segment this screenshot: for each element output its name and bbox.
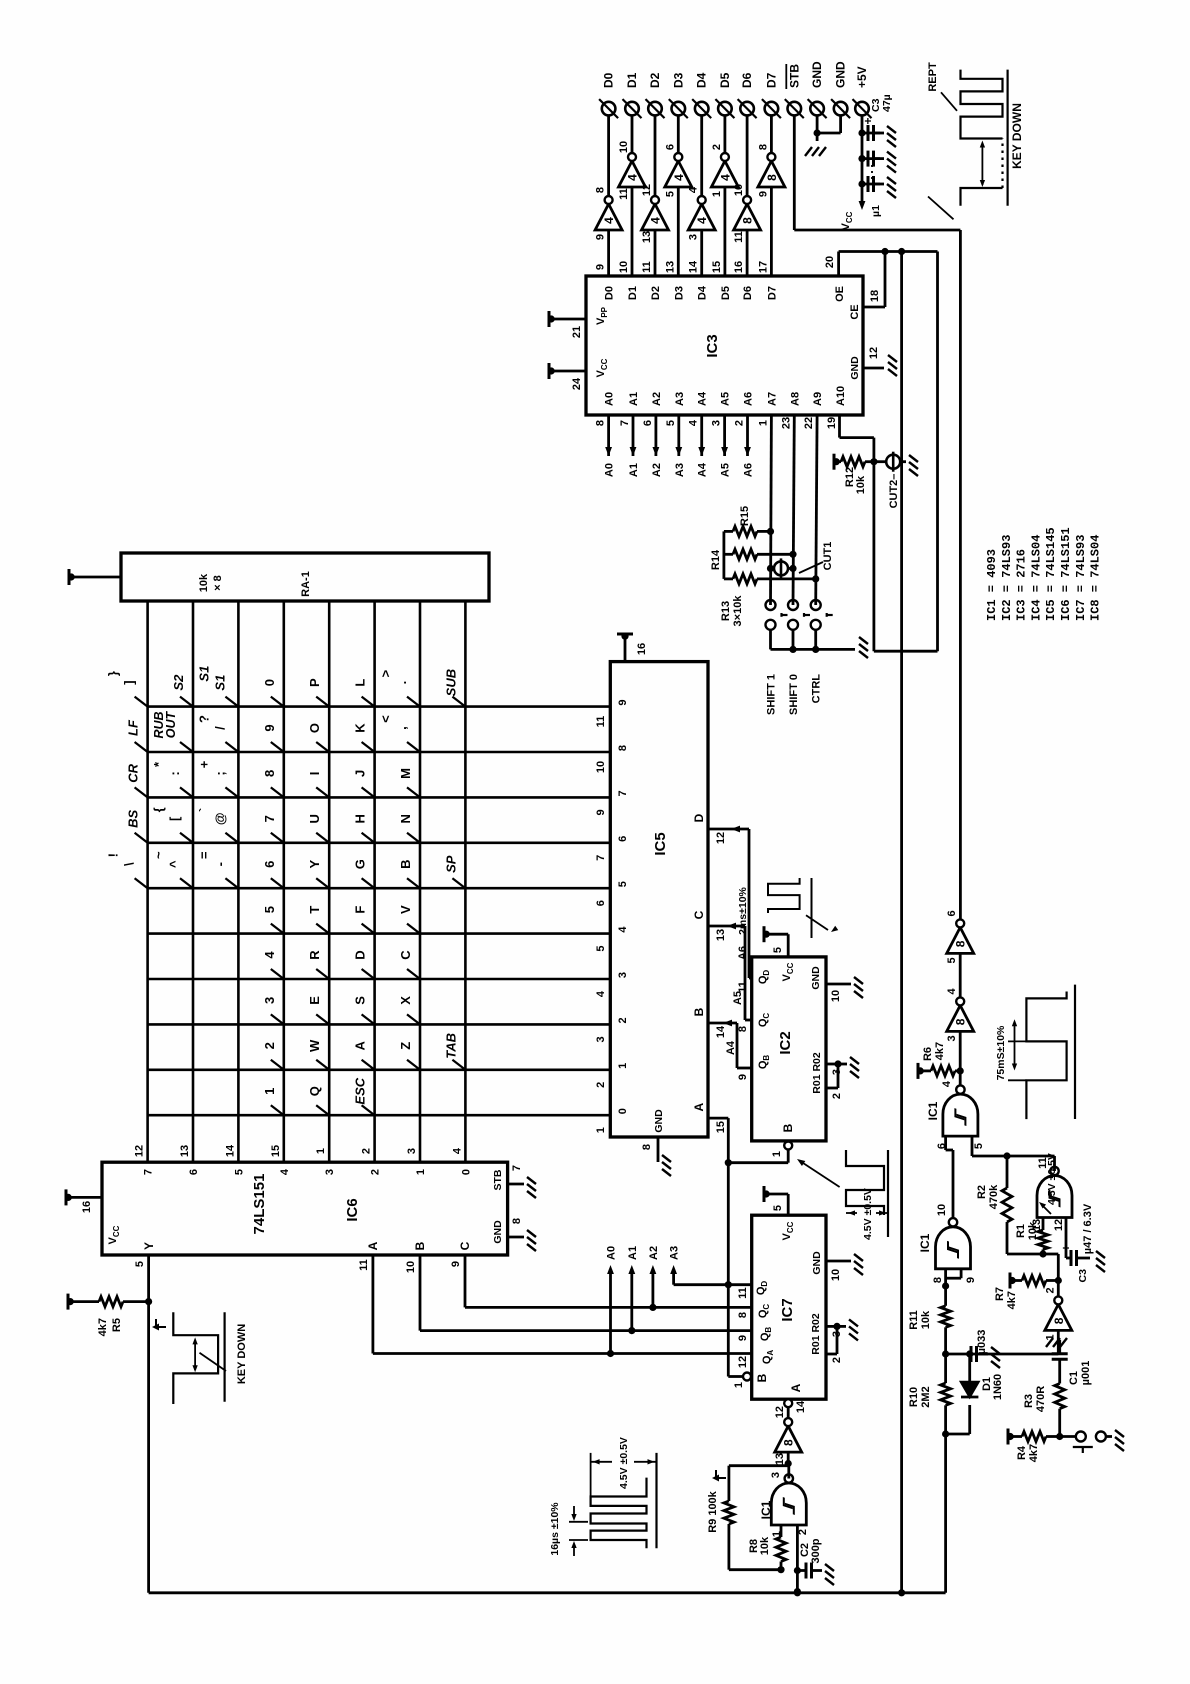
IC3 ground — [884, 354, 897, 376]
key switch col5 row f — [362, 878, 375, 888]
svg-text:2: 2 — [370, 1169, 382, 1175]
svg-text:10k: 10k — [920, 1310, 932, 1329]
R11 10k — [941, 1306, 951, 1328]
svg-text:4.5V ±0.5V: 4.5V ±0.5V — [862, 1188, 874, 1240]
svg-text:STB: STB — [492, 1169, 504, 1190]
svg-text:2: 2 — [617, 1017, 629, 1023]
key switch col5 row b — [180, 878, 193, 888]
key switch col2 row a — [135, 742, 148, 752]
svg-text:R10: R10 — [908, 1387, 920, 1407]
CUT2 symbol — [886, 452, 900, 472]
matrix column wire — [148, 751, 611, 754]
svg-text:µ1: µ1 — [870, 205, 882, 217]
svg-text:15: 15 — [270, 1145, 282, 1157]
trace — [961, 70, 1003, 139]
svg-text:A3: A3 — [674, 463, 686, 477]
svg-text:4k7: 4k7 — [934, 1042, 946, 1060]
matrix column wire — [148, 841, 611, 844]
svg-text:2: 2 — [831, 1093, 843, 1099]
svg-text:IC2 = 74LS93: IC2 = 74LS93 — [1000, 535, 1014, 621]
axis — [655, 1453, 657, 1548]
svg-text:U: U — [307, 814, 322, 823]
A8 row — [793, 415, 794, 605]
svg-text:GND: GND — [653, 1109, 665, 1133]
svg-text:A1: A1 — [627, 1246, 639, 1260]
key switch col4 row d — [271, 833, 284, 843]
svg-text:A5: A5 — [720, 463, 732, 477]
svg-text:14: 14 — [224, 1144, 236, 1157]
R8 10k — [780, 1525, 783, 1537]
svg-text:+5V: +5V — [855, 66, 869, 88]
svg-text:8: 8 — [954, 1018, 968, 1025]
CUT1 link — [767, 565, 774, 572]
IC2 reset ground — [846, 1056, 859, 1078]
svg-text:R15: R15 — [739, 506, 751, 526]
svg-text:A1: A1 — [628, 392, 640, 406]
GND connector wiring — [816, 115, 819, 133]
svg-text:.: . — [394, 681, 409, 685]
svg-text:R: R — [307, 950, 322, 960]
svg-text:-: - — [212, 862, 227, 866]
svg-text:R13: R13 — [720, 601, 732, 621]
+5V wire — [861, 115, 864, 206]
svg-text:GND: GND — [834, 61, 848, 88]
u47 plates — [1071, 1250, 1077, 1266]
svg-text:S: S — [353, 996, 368, 1005]
svg-text:?: ? — [196, 715, 211, 723]
svg-text:4.5V ±0.5V: 4.5V ±0.5V — [1046, 1153, 1058, 1205]
key switch col10 row f — [362, 1105, 375, 1115]
svg-text:10k: 10k — [198, 573, 210, 592]
svg-text:74LS151: 74LS151 — [251, 1174, 268, 1235]
svg-text:P: P — [307, 678, 322, 687]
key switch col7 row d — [271, 969, 284, 979]
key switch col9 row f — [362, 1060, 375, 1070]
waveform leader — [928, 197, 954, 220]
D1 1N60 parallel with R10 — [946, 1433, 970, 1436]
svg-text:+: + — [1059, 1244, 1073, 1251]
svg-text:C: C — [458, 1241, 472, 1250]
to gate 5-6 — [952, 1150, 955, 1218]
key switch col3 row f — [362, 787, 375, 797]
key switch col4 row g — [407, 833, 420, 843]
CUT1 leader — [799, 562, 823, 573]
svg-text:6: 6 — [664, 144, 676, 150]
R14 — [733, 549, 757, 559]
OE net wire — [837, 252, 840, 277]
CE/OE junction — [881, 248, 888, 255]
svg-text:\: \ — [122, 862, 137, 866]
R5 pull-up on Y line — [145, 1298, 152, 1305]
svg-text:µ033: µ033 — [976, 1330, 988, 1355]
svg-text:E: E — [307, 996, 322, 1005]
svg-text:1N60: 1N60 — [992, 1374, 1004, 1400]
svg-text:Z: Z — [398, 1042, 413, 1050]
svg-text:A2: A2 — [648, 1246, 660, 1260]
svg-text:3: 3 — [711, 420, 723, 426]
svg-text:IC4 = 74LS04: IC4 = 74LS04 — [1029, 535, 1043, 621]
svg-text:5: 5 — [946, 957, 958, 963]
A2 vertical — [465, 1306, 752, 1309]
matrix column wire — [148, 978, 611, 981]
svg-text:B: B — [692, 1007, 706, 1016]
IC3 Vpp pin 21 — [551, 318, 586, 321]
svg-text:C3: C3 — [1077, 1269, 1089, 1283]
matrix column wire — [148, 1069, 611, 1072]
svg-text:14: 14 — [795, 1400, 807, 1413]
key switch SHIFT 1 — [766, 600, 776, 610]
key switch col3 row a — [135, 787, 148, 797]
R4 rail — [1007, 1429, 1014, 1445]
svg-text:S2: S2 — [171, 674, 186, 691]
matrix column wire — [148, 705, 611, 708]
svg-text:O: O — [307, 723, 322, 733]
matrix column wire — [148, 1114, 611, 1117]
svg-text:X: X — [398, 996, 413, 1005]
svg-text:D0: D0 — [602, 72, 616, 88]
svg-text:5: 5 — [664, 191, 676, 197]
svg-text:D2: D2 — [650, 286, 662, 300]
R1 10k — [1042, 1249, 1045, 1254]
matrix row wire — [282, 601, 285, 1162]
A10 net — [873, 438, 876, 652]
arrow line — [194, 1340, 196, 1370]
svg-text:15: 15 — [715, 1121, 727, 1133]
key switch col1 row h — [452, 697, 465, 707]
key switch col4 row f — [362, 833, 375, 843]
IC1 oscillator gate — [771, 1474, 806, 1525]
svg-text:13: 13 — [664, 261, 676, 273]
svg-text:D1: D1 — [627, 286, 639, 300]
svg-text:10: 10 — [830, 1269, 842, 1281]
C1 plates — [1052, 1354, 1068, 1360]
svg-text:2ms±10%: 2ms±10% — [737, 886, 749, 934]
svg-text:µ47 / 6.3V: µ47 / 6.3V — [1082, 1203, 1094, 1254]
svg-text:+: + — [861, 117, 875, 124]
svg-text:9: 9 — [595, 809, 607, 815]
REPT key R3 R4 C1 — [1056, 1433, 1063, 1440]
matrix column wire — [148, 796, 611, 799]
shift gnd bus — [771, 648, 856, 651]
connector pin D2 — [646, 99, 665, 118]
svg-text:IC1: IC1 — [759, 1500, 773, 1519]
svg-text:[: [ — [167, 816, 182, 821]
svg-text:GND: GND — [492, 1220, 504, 1244]
A0 vertical — [373, 1352, 752, 1355]
matrix column wire — [148, 1023, 611, 1026]
key switch col1 row e — [316, 697, 329, 707]
svg-text:B: B — [398, 860, 413, 869]
key switch col9 row g — [407, 1060, 420, 1070]
svg-text:IC1 = 4093: IC1 = 4093 — [985, 549, 999, 621]
IC5 rail — [617, 633, 633, 640]
A1 arrow — [630, 447, 637, 456]
svg-text:A2: A2 — [651, 463, 663, 477]
A6 arrow — [744, 447, 751, 456]
svg-text:10k: 10k — [759, 1536, 771, 1555]
svg-text:;: ; — [212, 771, 227, 775]
A5 arrow — [721, 447, 728, 456]
gnd junction — [814, 129, 821, 136]
key switch col9 row e — [316, 1060, 329, 1070]
svg-text:D7: D7 — [764, 72, 778, 88]
svg-text:F: F — [353, 906, 368, 914]
svg-text:I: I — [307, 772, 322, 776]
key switch col5 row e — [316, 878, 329, 888]
C 033u to ground — [946, 1353, 970, 1356]
svg-text:5: 5 — [233, 1169, 245, 1175]
IC6 rail — [65, 1189, 72, 1205]
svg-text:10k: 10k — [855, 475, 867, 494]
svg-text:D: D — [353, 950, 368, 959]
key switch col6 row e — [316, 924, 329, 934]
svg-text:C: C — [692, 910, 706, 919]
decoupling ground — [883, 176, 896, 198]
svg-text:A6: A6 — [743, 392, 755, 406]
connector pin D6 — [738, 99, 757, 118]
svg-text:10: 10 — [405, 1261, 417, 1273]
svg-text:5: 5 — [665, 420, 677, 426]
svg-text:B: B — [413, 1241, 427, 1250]
svg-text:5: 5 — [134, 1261, 146, 1267]
svg-text:IC7 = 74LS93: IC7 = 74LS93 — [1074, 535, 1088, 621]
svg-text:LF: LF — [126, 719, 141, 736]
svg-text:]: ] — [122, 680, 137, 684]
IC3 box — [586, 276, 863, 415]
key switch col1 row f — [362, 697, 375, 707]
matrix row wire — [373, 601, 376, 1162]
svg-text:5: 5 — [772, 1205, 784, 1211]
svg-text:8: 8 — [1052, 1317, 1066, 1324]
svg-text:9: 9 — [262, 724, 277, 731]
key switch col10 row e — [316, 1105, 329, 1115]
svg-text:17: 17 — [757, 261, 769, 273]
key switch col3 row e — [316, 787, 329, 797]
svg-text:A0: A0 — [606, 1246, 618, 1260]
key switch col6 row f — [362, 924, 375, 934]
svg-text:7: 7 — [143, 1169, 155, 1175]
svg-text:4: 4 — [718, 174, 732, 181]
svg-text:~: ~ — [151, 851, 166, 859]
svg-text:8: 8 — [737, 1026, 749, 1032]
inverter on D4 — [688, 186, 716, 240]
svg-text:Y: Y — [142, 1242, 156, 1250]
connector pin D0 — [599, 99, 618, 118]
svg-text:D4: D4 — [697, 285, 709, 300]
svg-text:4: 4 — [617, 926, 629, 933]
svg-text:OUT: OUT — [164, 710, 178, 738]
svg-text:10: 10 — [830, 990, 842, 1002]
svg-text:3: 3 — [946, 1035, 958, 1041]
svg-text:D3: D3 — [673, 286, 685, 300]
IC1 gate 5-6-4 — [943, 1085, 978, 1136]
svg-text:8: 8 — [595, 187, 607, 193]
svg-text:CUT2–: CUT2– — [888, 474, 900, 509]
connector pin D5 — [715, 99, 734, 118]
svg-text:1: 1 — [771, 1151, 783, 1157]
svg-text:13: 13 — [715, 929, 727, 941]
svg-text:IC3 = 2716: IC3 = 2716 — [1015, 549, 1029, 621]
CUT2 ground — [905, 454, 918, 476]
svg-text:IC2: IC2 — [777, 1031, 794, 1054]
svg-text:18: 18 — [869, 290, 881, 302]
svg-text:2: 2 — [711, 144, 723, 150]
key switch col3 row d — [271, 787, 284, 797]
svg-text:IC5: IC5 — [652, 832, 669, 855]
svg-text:12: 12 — [715, 832, 727, 844]
svg-text:>: > — [378, 669, 393, 677]
C2 ground — [821, 1563, 834, 1585]
svg-text:M: M — [398, 768, 413, 779]
matrix row wire — [464, 601, 467, 1162]
key switch col4 row e — [316, 833, 329, 843]
svg-text:D: D — [692, 813, 706, 822]
svg-text:4: 4 — [941, 1080, 953, 1087]
R3 470R — [1055, 1384, 1065, 1409]
svg-text:10: 10 — [595, 761, 607, 773]
A4 arrow — [723, 1020, 732, 1027]
svg-text:9: 9 — [450, 1261, 462, 1267]
IC6 ground — [523, 1229, 536, 1251]
svg-text:14: 14 — [715, 1025, 727, 1038]
axis — [1006, 70, 1008, 206]
svg-text:5: 5 — [595, 946, 607, 952]
key switch col10 row d — [271, 1105, 284, 1115]
svg-text:A6: A6 — [737, 946, 749, 960]
svg-text:{: { — [151, 807, 166, 812]
svg-text:8: 8 — [765, 174, 779, 181]
svg-text:H: H — [353, 814, 368, 823]
svg-text:10: 10 — [618, 261, 630, 273]
svg-text:6: 6 — [642, 420, 654, 426]
svg-text:BS: BS — [126, 809, 141, 827]
A4 arrow — [698, 447, 705, 456]
IC7 Vcc pin 5 — [787, 1194, 790, 1215]
svg-text:GND: GND — [849, 356, 861, 380]
svg-text:R4: R4 — [1016, 1445, 1028, 1460]
shift keys ground — [855, 636, 868, 658]
R12 — [841, 457, 865, 467]
key switch col6 row d — [271, 924, 284, 934]
svg-text:CE: CE — [849, 304, 861, 319]
svg-text:3: 3 — [324, 1169, 336, 1175]
svg-text:W: W — [307, 1039, 322, 1052]
svg-text:9: 9 — [595, 264, 607, 270]
svg-text:470R: 470R — [1035, 1386, 1047, 1412]
trace — [1026, 992, 1066, 1120]
svg-text::: : — [167, 771, 182, 775]
axis — [887, 1150, 889, 1237]
key switch col4 row c — [225, 833, 238, 843]
R6 — [931, 1066, 955, 1076]
svg-text:A9: A9 — [812, 392, 824, 406]
inverter on D1 — [618, 141, 646, 200]
svg-text:4.5V ±0.5V: 4.5V ±0.5V — [618, 1437, 630, 1489]
svg-text:2M2: 2M2 — [920, 1386, 932, 1407]
leader to IC2.B — [800, 1161, 840, 1187]
svg-text:13: 13 — [641, 231, 653, 243]
svg-text:4k7: 4k7 — [97, 1318, 109, 1336]
pullup common bar — [723, 531, 726, 579]
key switch col3 row b — [180, 787, 193, 797]
connector pin GND — [808, 99, 827, 118]
svg-text:3: 3 — [688, 234, 700, 240]
svg-text:3: 3 — [617, 972, 629, 978]
svg-text:3: 3 — [770, 1472, 782, 1478]
svg-text:6: 6 — [595, 900, 607, 906]
STB drop — [794, 229, 960, 232]
svg-text:2: 2 — [1044, 1287, 1056, 1293]
svg-text:47µ: 47µ — [881, 94, 893, 112]
A0 arrow — [605, 447, 612, 456]
axis — [811, 878, 813, 938]
svg-text:3: 3 — [595, 1036, 607, 1042]
svg-text:5: 5 — [772, 947, 784, 953]
key switch col5 row c — [225, 878, 238, 888]
svg-text:R3: R3 — [1023, 1394, 1035, 1408]
u033 plates — [971, 1346, 977, 1362]
svg-text:A5: A5 — [720, 392, 732, 406]
svg-text:IC8 = 74LS04: IC8 = 74LS04 — [1089, 535, 1103, 621]
svg-text:19: 19 — [826, 417, 838, 429]
svg-text:0: 0 — [262, 679, 277, 686]
A0 arrow — [607, 1265, 614, 1274]
A2 arrow — [652, 447, 659, 456]
STB long line — [959, 230, 962, 919]
svg-text:V: V — [398, 905, 413, 914]
oscillator input 2 wire — [796, 1525, 799, 1592]
svg-text:SHIFT 1: SHIFT 1 — [766, 674, 778, 715]
svg-text:D5: D5 — [718, 72, 732, 88]
matrix row wire — [328, 601, 331, 1162]
svg-text:1: 1 — [617, 1063, 629, 1069]
svg-text:D1: D1 — [625, 72, 639, 88]
svg-text:2: 2 — [361, 1148, 373, 1154]
inverter on D0 — [595, 187, 623, 240]
trace — [173, 1312, 218, 1404]
Vcc rail — [548, 363, 555, 379]
R12 rail — [833, 454, 840, 470]
capacitor C3 47u electrolytic — [862, 132, 880, 135]
svg-text:+: + — [196, 760, 211, 768]
svg-text:GND: GND — [810, 966, 822, 990]
svg-text:8: 8 — [262, 770, 277, 777]
level extension — [590, 1453, 592, 1497]
STB wire — [793, 115, 796, 230]
inverter on D3 — [664, 144, 692, 197]
matrix row wire — [237, 601, 240, 1162]
R5 — [99, 1297, 123, 1307]
R13 — [733, 574, 757, 584]
svg-text:A7: A7 — [766, 392, 778, 406]
R10 2M2 — [941, 1383, 951, 1405]
key net line Y901 — [900, 252, 903, 1592]
A4 A5 A6 wires IC2 to IC5 — [737, 1067, 752, 1070]
key switch col1 row b — [180, 697, 193, 707]
svg-text:4: 4 — [595, 990, 607, 997]
svg-text:8: 8 — [737, 1312, 749, 1318]
A9 row — [816, 415, 817, 605]
svg-text:11: 11 — [618, 188, 630, 200]
svg-text:IC1: IC1 — [926, 1101, 940, 1120]
key switch col8 row g — [407, 1014, 420, 1024]
svg-text:13: 13 — [774, 1453, 786, 1465]
svg-text:9: 9 — [617, 700, 629, 706]
svg-text:11: 11 — [737, 1287, 749, 1299]
svg-text:K: K — [353, 723, 368, 733]
u033 ground — [987, 1346, 1000, 1368]
svg-text:`: ` — [196, 808, 211, 812]
